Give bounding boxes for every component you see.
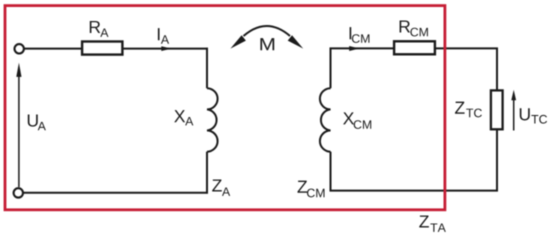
current arrow I_A <box>161 46 171 51</box>
label I_CM <box>350 27 370 43</box>
wire bottom left <box>23 192 208 194</box>
wire Z_TC to bottom corner <box>496 130 498 191</box>
label M <box>260 38 274 50</box>
wire right circuit top vertical <box>330 48 332 89</box>
label Z_TA <box>419 215 446 231</box>
label X_CM <box>343 112 371 129</box>
inductor X_CM <box>320 88 331 152</box>
wire top left <box>24 48 83 50</box>
terminal top <box>15 44 24 53</box>
wire bottom right <box>330 190 498 192</box>
label I_A <box>158 28 169 44</box>
voltage arrow U_TC <box>513 99 515 131</box>
current arrow I_CM <box>349 46 359 51</box>
wire R_A to corner <box>122 48 207 50</box>
terminal bottom <box>14 188 23 197</box>
label X_A <box>174 110 193 125</box>
label R_CM <box>400 20 428 36</box>
mutual inductance arrow M <box>244 26 291 36</box>
wire to R_CM <box>330 47 395 49</box>
inductor X_A <box>207 88 218 152</box>
label Z_A node <box>212 179 230 195</box>
resistor R_CM <box>394 41 435 54</box>
resistor R_A <box>82 42 122 55</box>
label Z_TC <box>455 102 482 118</box>
wire corner down to Z_TC <box>496 48 498 91</box>
wire X_A to bottom corner <box>206 152 208 194</box>
voltage arrow U_A <box>18 75 20 187</box>
label R_A <box>90 21 109 37</box>
wire R_CM to corner <box>435 47 498 49</box>
impedance Z_TC box <box>491 90 503 129</box>
label Z_CM node <box>298 181 325 198</box>
wire corner down to X_A <box>206 48 208 88</box>
label U_TC <box>520 108 547 123</box>
label U_A <box>28 114 46 130</box>
boundary box Z_TA <box>5 6 445 210</box>
wire X_CM to bottom corner <box>330 152 332 192</box>
